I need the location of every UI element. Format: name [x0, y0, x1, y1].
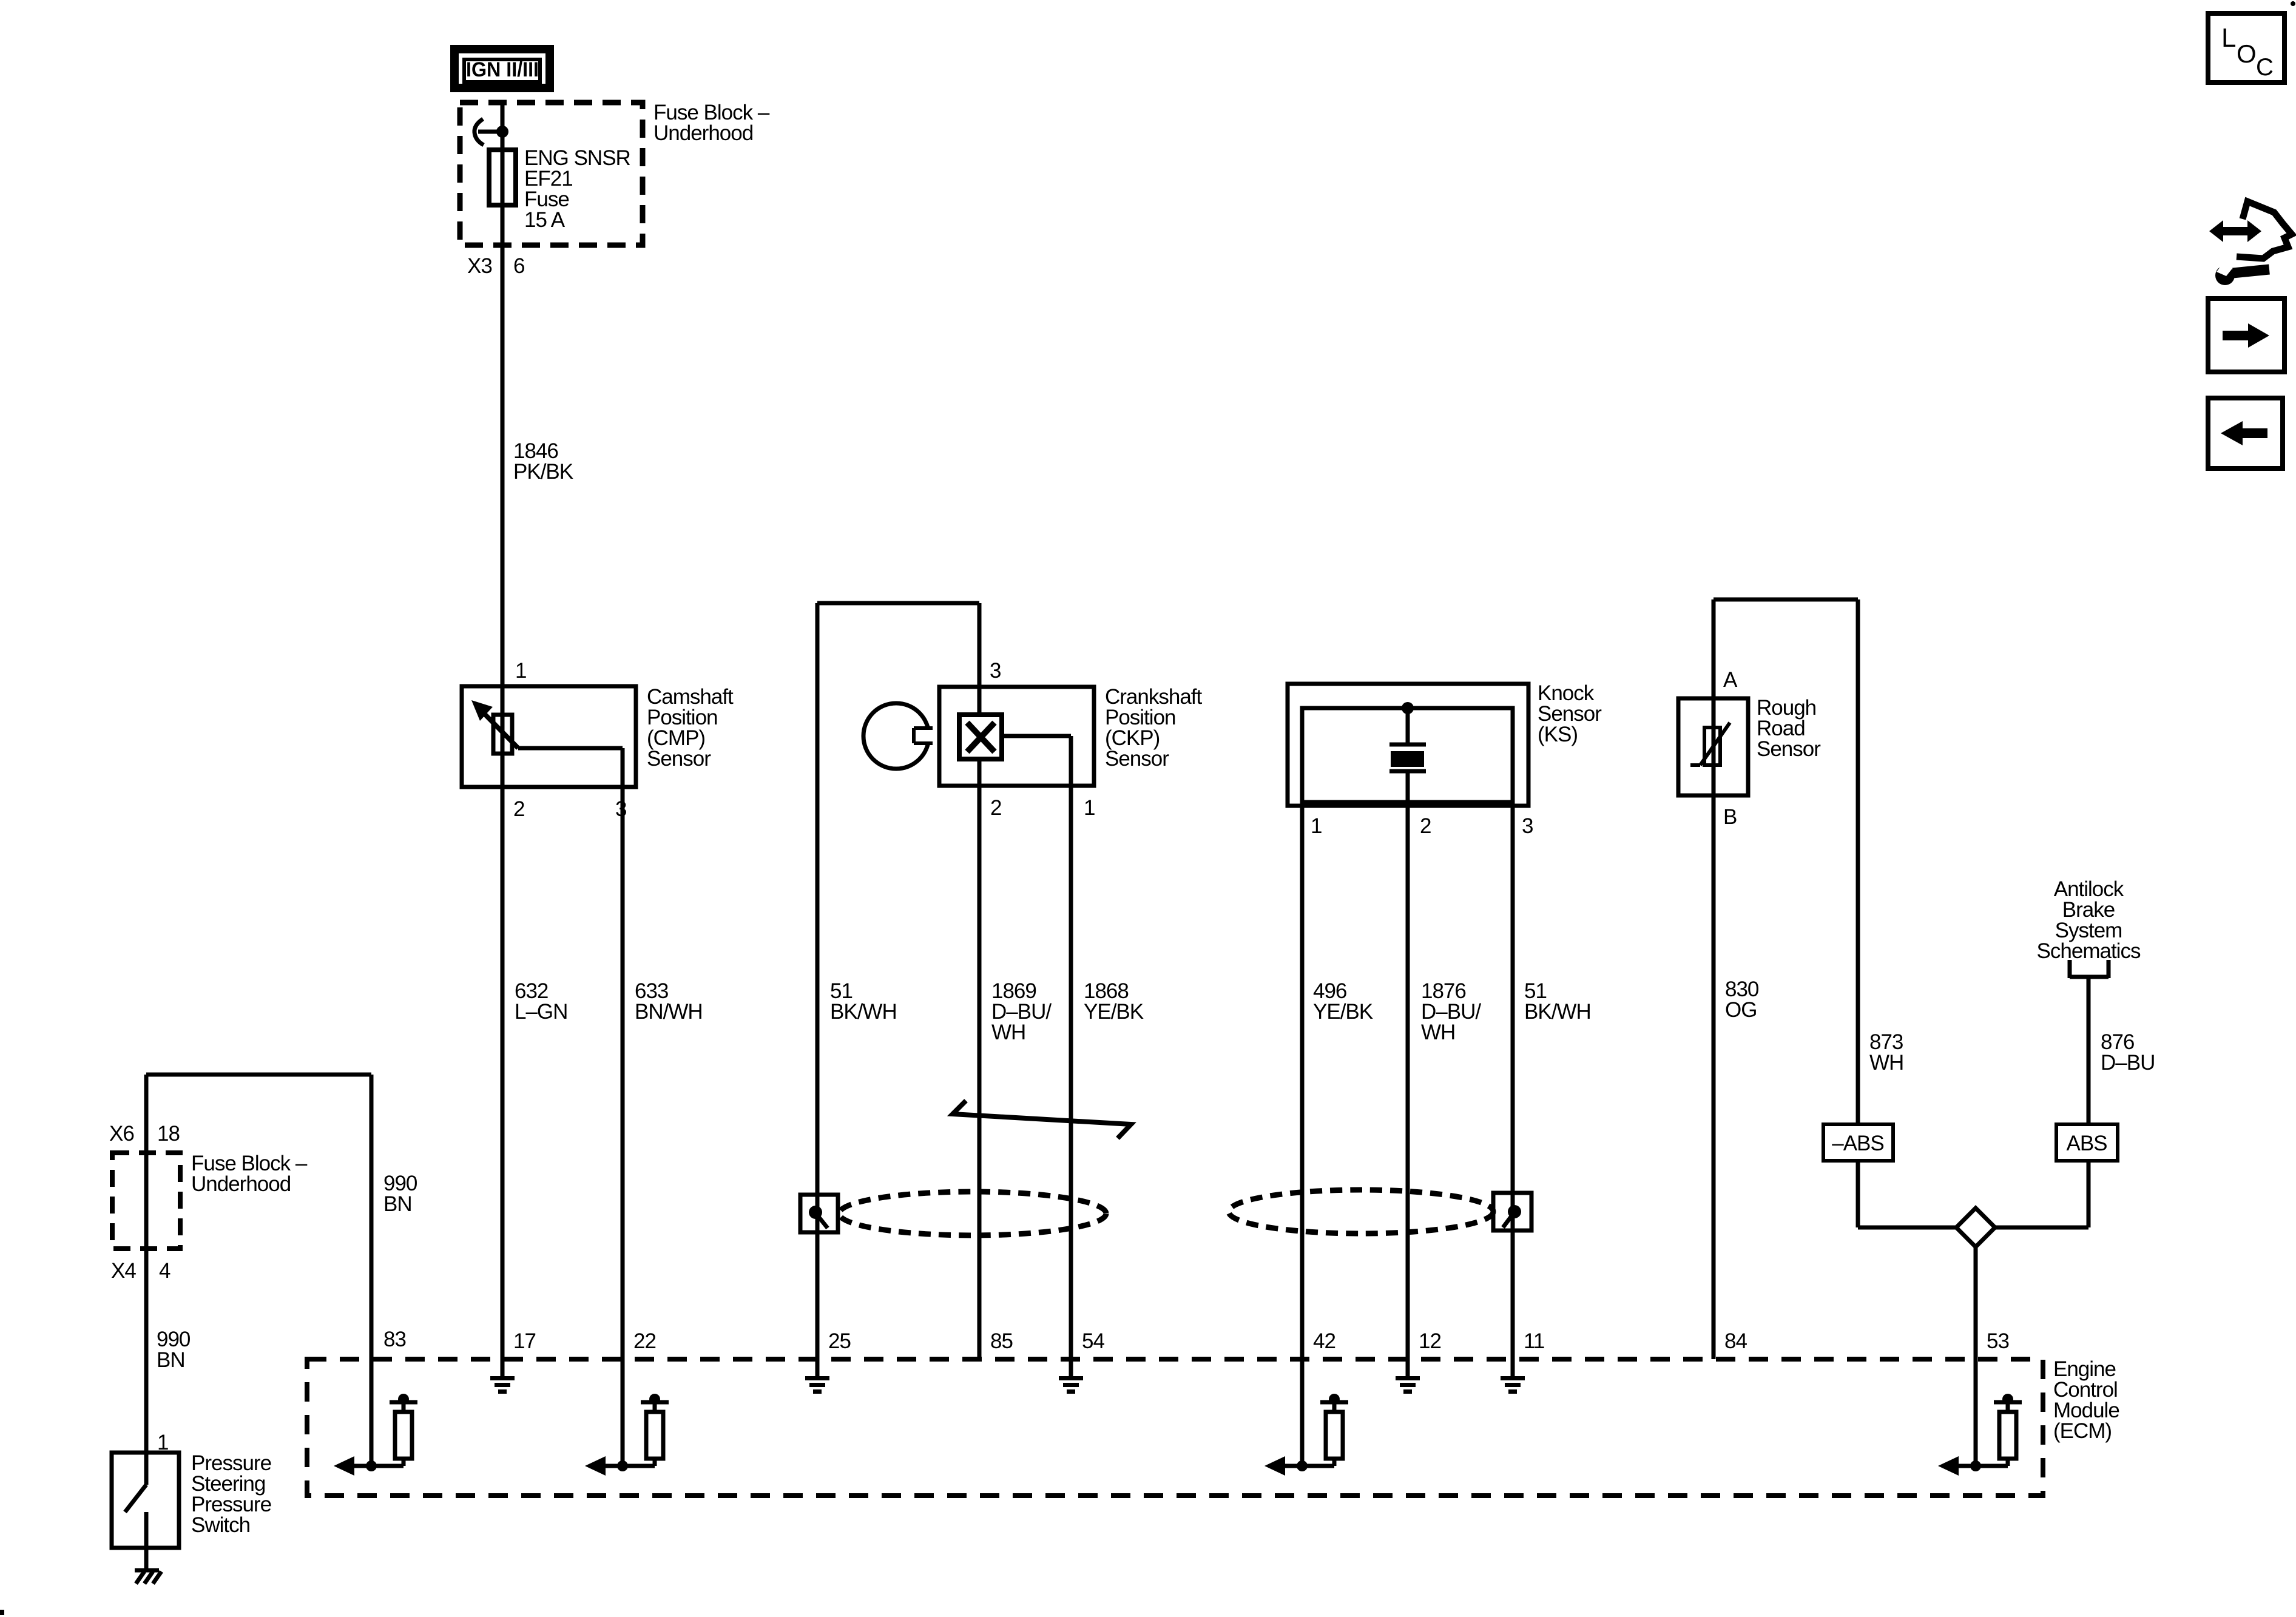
- svg-text:15 A: 15 A: [524, 208, 566, 232]
- svg-text:L–GN: L–GN: [515, 1000, 567, 1024]
- svg-text:YE/BK: YE/BK: [1084, 1000, 1144, 1024]
- svg-text:O: O: [2237, 39, 2257, 68]
- svg-text:2: 2: [1420, 814, 1431, 838]
- svg-text:X3: X3: [467, 254, 492, 278]
- svg-text:4: 4: [159, 1259, 171, 1283]
- svg-text:1: 1: [1311, 814, 1322, 838]
- svg-text:Underhood: Underhood: [191, 1172, 291, 1196]
- svg-text:A: A: [1723, 668, 1738, 692]
- svg-text:3: 3: [1522, 814, 1533, 838]
- svg-text:85: 85: [990, 1329, 1013, 1353]
- svg-text:2: 2: [513, 797, 524, 821]
- svg-text:YE/BK: YE/BK: [1313, 1000, 1373, 1024]
- svg-text:3: 3: [990, 659, 1001, 683]
- svg-text:PK/BK: PK/BK: [513, 460, 573, 484]
- svg-text:Sensor: Sensor: [1105, 747, 1169, 771]
- svg-text:BK/WH: BK/WH: [1524, 1000, 1591, 1024]
- svg-text:BK/WH: BK/WH: [830, 1000, 897, 1024]
- svg-text:Sensor: Sensor: [647, 747, 711, 771]
- svg-text:Underhood: Underhood: [653, 121, 753, 145]
- svg-text:ABS: ABS: [2066, 1132, 2107, 1155]
- svg-text:IGN II/III: IGN II/III: [466, 58, 539, 81]
- svg-text:X6: X6: [109, 1122, 134, 1146]
- svg-text:18: 18: [157, 1122, 180, 1146]
- svg-text:22: 22: [633, 1329, 656, 1353]
- svg-text:17: 17: [513, 1329, 536, 1353]
- svg-text:Sensor: Sensor: [1757, 737, 1821, 761]
- svg-text:Schematics: Schematics: [2037, 939, 2141, 963]
- svg-text:L: L: [2221, 23, 2236, 53]
- svg-text:C: C: [2256, 54, 2274, 81]
- svg-text:1: 1: [515, 659, 526, 683]
- svg-text:11: 11: [1524, 1329, 1544, 1353]
- svg-text:WH: WH: [991, 1021, 1025, 1044]
- svg-text:BN: BN: [157, 1348, 185, 1372]
- svg-text:2: 2: [990, 796, 1001, 820]
- svg-text:WH: WH: [1421, 1021, 1455, 1044]
- svg-text:–ABS: –ABS: [1832, 1132, 1884, 1155]
- svg-text:12: 12: [1419, 1329, 1441, 1353]
- svg-text:D–BU: D–BU: [2101, 1051, 2155, 1075]
- svg-text:53: 53: [1987, 1329, 2009, 1353]
- svg-text:84: 84: [1724, 1329, 1747, 1353]
- svg-text:BN/WH: BN/WH: [635, 1000, 703, 1024]
- svg-text:WH: WH: [1869, 1051, 1903, 1075]
- svg-text:83: 83: [383, 1328, 406, 1351]
- svg-text:1: 1: [1084, 796, 1095, 820]
- svg-text:6: 6: [513, 254, 524, 278]
- svg-text:(KS): (KS): [1538, 723, 1578, 746]
- svg-text:OG: OG: [1725, 998, 1757, 1022]
- svg-text:25: 25: [828, 1329, 851, 1353]
- svg-text:Switch: Switch: [191, 1513, 250, 1537]
- svg-text:(ECM): (ECM): [2053, 1419, 2112, 1443]
- svg-text:42: 42: [1313, 1329, 1335, 1353]
- svg-text:3: 3: [615, 797, 626, 821]
- svg-text:54: 54: [1082, 1329, 1104, 1353]
- svg-text:B: B: [1723, 805, 1737, 829]
- svg-text:BN: BN: [383, 1192, 412, 1216]
- svg-text:X4: X4: [111, 1259, 136, 1283]
